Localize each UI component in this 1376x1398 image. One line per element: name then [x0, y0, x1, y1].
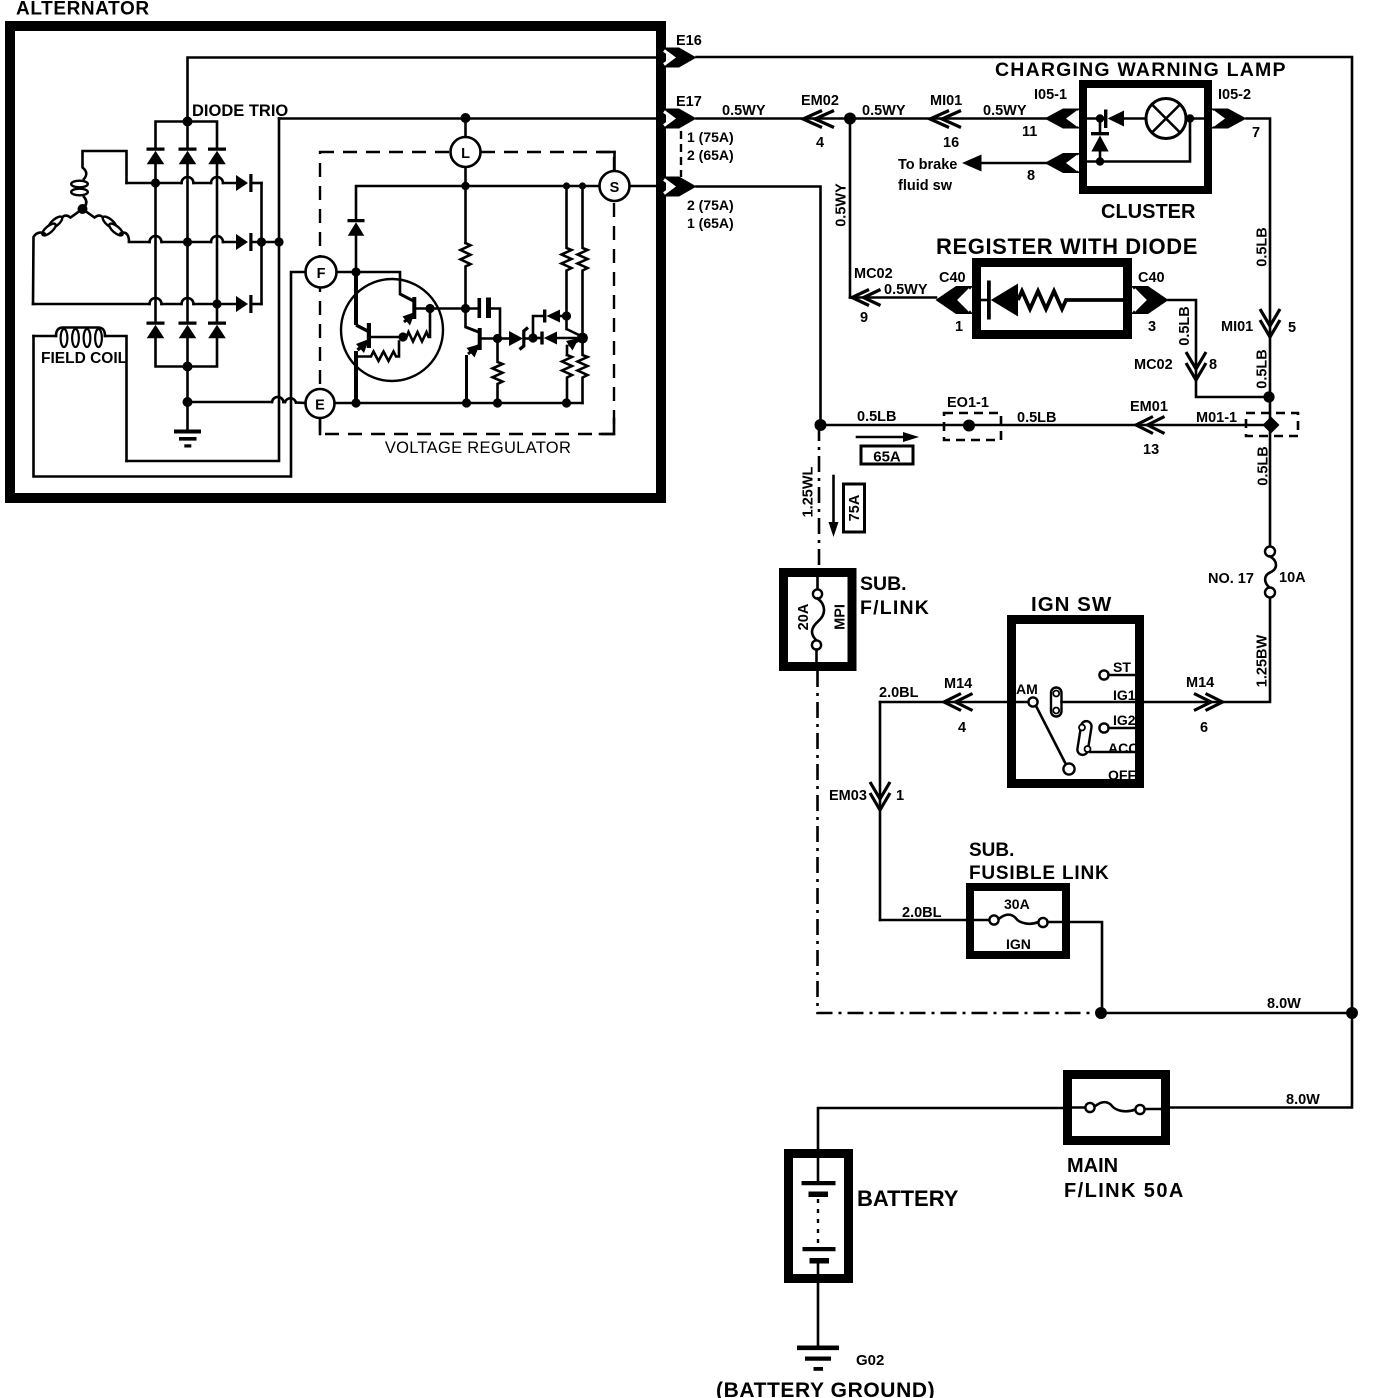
svg-text:CHARGING WARNING LAMP: CHARGING WARNING LAMP — [995, 59, 1287, 81]
svg-text:FUSIBLE LINK: FUSIBLE LINK — [969, 863, 1110, 884]
label 0.5WY a — [722, 103, 766, 119]
node bus left — [815, 419, 827, 431]
diode trio bus — [156, 122, 218, 148]
wire 30A fuse out — [1048, 922, 1102, 1013]
rectifier diode N3 — [208, 322, 226, 339]
svg-text:AM: AM — [1016, 681, 1038, 697]
label sub fusible link — [969, 840, 1110, 884]
node negative bus — [183, 362, 193, 372]
connector C40-1 — [936, 286, 974, 314]
connector C40-3 — [1131, 286, 1169, 314]
label battery ground — [716, 1379, 935, 1398]
svg-text:I05-1: I05-1 — [1034, 87, 1067, 103]
diode D7 (cluster) — [1104, 110, 1146, 129]
transistor Q3 — [466, 327, 498, 403]
terminal S — [600, 152, 657, 201]
svg-text:C40: C40 — [1138, 270, 1165, 286]
fuse NO.17 10A — [1265, 547, 1276, 598]
label 65A boxed — [861, 446, 913, 466]
svg-text:8.0W: 8.0W — [1267, 996, 1301, 1012]
label 20A MPI rotated — [796, 603, 849, 630]
diode D9 (register) — [981, 281, 1018, 320]
svg-text:IGN SW: IGN SW — [1031, 593, 1112, 616]
node phase3 — [212, 299, 221, 308]
svg-text:M14: M14 — [1186, 675, 1214, 691]
svg-text:9: 9 — [860, 310, 868, 326]
label 8.0W b — [1286, 1092, 1320, 1108]
label 0.5WY c — [983, 103, 1027, 119]
terminal L — [451, 118, 481, 167]
svg-text:1: 1 — [955, 319, 963, 335]
node phase2 — [183, 237, 192, 246]
wire rectifier right bus — [260, 183, 263, 304]
diode D8 (cluster vertical) — [1091, 119, 1109, 162]
svg-text:2 (75A): 2 (75A) — [687, 197, 734, 213]
wire rectifier negative bus — [156, 338, 218, 402]
svg-text:2 (65A): 2 (65A) — [687, 147, 734, 163]
svg-text:1 (75A): 1 (75A) — [687, 129, 734, 145]
wire lamp feed drop — [849, 119, 852, 298]
wire L column — [464, 167, 467, 243]
ign sw IG2 terminal — [1099, 712, 1139, 733]
svg-text:(BATTERY GROUND): (BATTERY GROUND) — [716, 1379, 935, 1398]
svg-text:0.5LB: 0.5LB — [1177, 306, 1193, 346]
arrow 65A flow — [857, 432, 919, 442]
label 0.5LB bus a — [857, 409, 897, 425]
label 0.5LB rotated (register drop) — [1177, 306, 1193, 346]
node 8.0W junction — [1095, 1007, 1107, 1019]
alternator box — [10, 26, 661, 498]
label charging warning lamp — [995, 59, 1287, 81]
node Q3 base — [493, 334, 502, 343]
svg-text:DIODE TRIO: DIODE TRIO — [192, 102, 288, 120]
wire phase2 — [129, 164, 236, 321]
node cluster diode junction — [1096, 114, 1104, 122]
wire register out — [1169, 300, 1270, 397]
svg-text:11: 11 — [1022, 124, 1037, 140]
svg-text:M01-1: M01-1 — [1196, 410, 1237, 426]
node E bus x566 — [562, 398, 571, 407]
label 8 — [1027, 168, 1035, 184]
svg-text:1.25WL: 1.25WL — [801, 466, 817, 517]
fuse 20A MPI — [812, 577, 824, 662]
ign sw ACC terminal — [1090, 740, 1140, 756]
svg-text:M14: M14 — [944, 676, 972, 692]
svg-text:2.0BL: 2.0BL — [879, 685, 919, 701]
wire phase3 — [33, 164, 236, 321]
svg-text:8.0W: 8.0W — [1286, 1092, 1320, 1108]
label battery — [857, 1186, 959, 1211]
svg-text:3: 3 — [1148, 319, 1156, 335]
battery cells — [802, 1158, 836, 1278]
wire to brake fluid sw — [981, 162, 1046, 165]
wire E16 internal — [188, 58, 659, 122]
connector EM02 chevron — [803, 111, 834, 128]
lamp (charging warning) — [1146, 99, 1208, 139]
svg-text:1: 1 — [896, 788, 904, 804]
voltage regulator dashed box — [320, 152, 615, 434]
svg-text:SUB.: SUB. — [969, 840, 1014, 861]
svg-text:0.5LB: 0.5LB — [1255, 227, 1271, 267]
svg-text:0.5LB: 0.5LB — [1255, 349, 1271, 389]
svg-text:IG2: IG2 — [1113, 712, 1136, 728]
label NO.17 10A — [1208, 570, 1306, 587]
label to brake fluid sw — [898, 157, 957, 194]
svg-text:To brake: To brake — [898, 157, 957, 173]
register box — [977, 263, 1128, 335]
svg-text:FIELD COIL: FIELD COIL — [41, 350, 127, 367]
svg-text:S: S — [610, 180, 620, 196]
node E bus x497 — [493, 398, 502, 407]
wire E17 internal — [279, 117, 658, 120]
stator winding B (lower-left) — [33, 209, 83, 304]
wire field coil to F — [34, 272, 307, 477]
connector M14-4 chevron — [944, 694, 973, 711]
svg-text:E16: E16 — [676, 33, 702, 49]
wire E16 to right edge — [697, 57, 1353, 1013]
svg-text:8: 8 — [1209, 357, 1217, 373]
svg-text:0.5LB: 0.5LB — [1256, 446, 1272, 486]
svg-text:fluid sw: fluid sw — [898, 178, 953, 194]
battery box — [789, 1154, 849, 1279]
svg-text:0.5WY: 0.5WY — [834, 183, 850, 227]
diode trio D1 — [147, 148, 165, 165]
arrow 75A flow — [829, 476, 839, 537]
wire cluster lamp row — [1081, 117, 1104, 120]
node divider1 mid — [562, 311, 571, 320]
label 2.0BL a — [879, 685, 919, 701]
svg-text:I05-2: I05-2 — [1218, 87, 1251, 103]
svg-text:0.5WY: 0.5WY — [722, 103, 766, 119]
node cluster lower — [1096, 157, 1104, 165]
zener diode Z1 — [498, 328, 534, 350]
label M01-1 — [1196, 410, 1237, 426]
wire into 30A fuse — [880, 919, 990, 922]
label 0.5WY rotated (S drop) — [834, 183, 850, 227]
wire main f/link to 8.0W — [1170, 1010, 1352, 1108]
transistor Q1 — [356, 272, 403, 403]
wire phase1 — [127, 164, 237, 321]
svg-text:65A: 65A — [873, 449, 901, 466]
label 75A boxed rotated — [844, 484, 865, 532]
wire EM03 drop — [879, 702, 882, 920]
connector S (alternator) — [662, 177, 697, 197]
svg-text:0.5WY: 0.5WY — [884, 282, 928, 298]
svg-text:VOLTAGE REGULATOR: VOLTAGE REGULATOR — [385, 439, 571, 457]
node E17/lamp junction — [844, 113, 856, 125]
svg-text:0.5WY: 0.5WY — [862, 103, 906, 119]
wire B+ column to field coil — [127, 119, 280, 462]
svg-text:1.25BW: 1.25BW — [1255, 635, 1271, 688]
label M14 4 — [944, 676, 972, 736]
label I05-2 — [1218, 87, 1260, 141]
svg-text:L: L — [461, 146, 470, 162]
resistor R7 (bottom) — [562, 355, 572, 403]
label MC02 9 — [854, 266, 928, 326]
node Q4 emitter junction — [577, 333, 588, 344]
ign sw IG1 terminal — [1062, 687, 1140, 703]
svg-text:MI01: MI01 — [930, 93, 962, 109]
diode trio D3 — [208, 148, 226, 165]
node E wire tap — [183, 397, 193, 407]
node lamp right — [1186, 114, 1194, 122]
svg-text:6: 6 — [1200, 720, 1208, 736]
svg-text:EO1-1: EO1-1 — [947, 395, 989, 411]
svg-text:BATTERY: BATTERY — [857, 1186, 959, 1211]
label G02 — [856, 1352, 884, 1369]
ign sw contact bar 2 — [1077, 720, 1093, 755]
label sub f/link — [860, 573, 930, 619]
wire E lead with hops — [188, 397, 307, 403]
ground G02 (battery) — [797, 1346, 839, 1371]
label EM02 — [801, 93, 839, 151]
label 0.5LB rotated r3 — [1256, 446, 1272, 486]
wire S sense line — [356, 186, 600, 219]
svg-text:CLUSTER: CLUSTER — [1101, 201, 1196, 223]
stator winding C (lower-right) — [83, 209, 130, 242]
main f/link box — [1068, 1075, 1166, 1141]
resistor R4 (L column) — [461, 243, 471, 327]
connector I05-1 — [1045, 109, 1081, 129]
ign sw AM contact — [1016, 681, 1038, 707]
label 2.0BL b — [902, 905, 942, 921]
wire I05-2 to ign sw — [1144, 119, 1270, 703]
svg-text:E17: E17 — [676, 94, 702, 110]
wire S to bus corner — [697, 187, 821, 426]
resistor R8 (bottom) — [578, 338, 588, 403]
label S pins — [687, 197, 734, 231]
svg-text:ALTERNATOR: ALTERNATOR — [16, 0, 150, 20]
svg-text:REGISTER WITH DIODE: REGISTER WITH DIODE — [936, 234, 1198, 259]
wire MC02 to register — [850, 296, 936, 299]
rectifier diode N1 — [147, 322, 165, 339]
fuse 30A IGN — [989, 915, 1047, 927]
label register with diode — [936, 234, 1198, 259]
svg-text:8: 8 — [1027, 168, 1035, 184]
ign sw contact bar 1 — [1051, 688, 1062, 717]
capacitor C1 — [478, 298, 501, 338]
wire 1.25WL dash-dot — [818, 425, 821, 568]
label E17 — [676, 94, 702, 110]
arrow to brake fluid sw — [962, 155, 982, 172]
label C40-3 — [1138, 270, 1165, 335]
svg-text:F/LINK: F/LINK — [860, 597, 930, 619]
label 0.5WY b — [862, 103, 906, 119]
svg-text:NO. 17: NO. 17 — [1208, 571, 1254, 587]
label 0.5LB rotated r2 — [1255, 349, 1271, 389]
connector MI01 chevron — [930, 111, 961, 128]
wire 8.0W to right — [1101, 1012, 1352, 1015]
label OFF — [1108, 767, 1136, 783]
svg-text:20A: 20A — [796, 603, 812, 630]
svg-text:ST: ST — [1113, 659, 1131, 675]
node Q1 base — [398, 332, 407, 341]
label main f/link 50a — [1064, 1155, 1185, 1202]
connector E17 — [662, 109, 697, 129]
svg-text:10A: 10A — [1279, 570, 1306, 586]
ign sw lever — [1036, 706, 1075, 775]
svg-text:EM01: EM01 — [1130, 399, 1168, 415]
diode D4 (S line) — [348, 219, 365, 272]
svg-text:MPI: MPI — [833, 604, 849, 630]
connector EM01 chevron — [1136, 417, 1165, 434]
stator neutral node — [78, 204, 88, 214]
wire AM feed — [880, 701, 1028, 704]
rectifier diode N2 — [179, 322, 197, 339]
wire dash-dot to 8.0W — [818, 671, 1099, 1013]
node E bus x466 — [462, 398, 471, 407]
svg-text:OFF: OFF — [1108, 767, 1136, 783]
svg-text:F: F — [317, 266, 326, 282]
ground (alternator) — [174, 402, 201, 448]
label 30A IGN — [1004, 896, 1031, 952]
svg-text:MC02: MC02 — [854, 266, 893, 282]
label cluster — [1101, 201, 1196, 223]
stator winding A (top) — [71, 151, 126, 209]
label E17 pins — [681, 129, 734, 177]
resistor R9 (register) — [1018, 291, 1123, 309]
node register drop junction — [1263, 391, 1274, 402]
node divider2 top — [579, 182, 586, 189]
wire E bus — [335, 402, 583, 405]
svg-text:ACC: ACC — [1108, 740, 1138, 756]
sub f/link box — [784, 573, 853, 667]
svg-text:IGN: IGN — [1006, 936, 1031, 952]
label MC02 8 — [1134, 357, 1217, 373]
transistor Q4 — [566, 316, 581, 355]
label 8.0W a — [1267, 996, 1301, 1012]
node 8.0W right — [1346, 1007, 1358, 1019]
label E16 — [676, 33, 702, 49]
diode trio D2 — [179, 148, 197, 165]
svg-text:2.0BL: 2.0BL — [902, 905, 942, 921]
node L-S crossing — [461, 182, 469, 190]
svg-text:MAIN: MAIN — [1067, 1155, 1118, 1177]
svg-text:MI01: MI01 — [1221, 319, 1253, 335]
ign sw ST terminal — [1099, 659, 1139, 680]
node zener junction — [528, 333, 537, 342]
svg-text:IG1: IG1 — [1113, 687, 1136, 703]
svg-text:1 (65A): 1 (65A) — [687, 215, 734, 231]
connector EM03 chevron — [870, 782, 890, 810]
label 0.5LB rotated r1 — [1255, 227, 1271, 267]
resistor R6 (divider) — [578, 186, 588, 338]
svg-text:C40: C40 — [939, 270, 966, 286]
sub fusible link box — [970, 887, 1066, 955]
node L column tap — [461, 304, 470, 313]
label ign sw — [1031, 593, 1112, 616]
wire E17 to cluster — [697, 117, 1047, 120]
svg-text:7: 7 — [1252, 125, 1260, 141]
node Q2 base — [425, 304, 477, 313]
node F junction — [337, 267, 361, 276]
connector MC02-8 chevron — [1186, 352, 1206, 380]
label MI01 5 — [1221, 319, 1296, 336]
svg-text:4: 4 — [816, 135, 824, 151]
label 0.5LB bus b — [1017, 410, 1057, 426]
svg-text:EM02: EM02 — [801, 93, 839, 109]
connector MC02 chevron — [852, 290, 881, 306]
node right bus phase2 — [257, 237, 266, 246]
svg-text:16: 16 — [943, 135, 959, 151]
svg-text:E: E — [315, 398, 325, 414]
label I05-1 — [1022, 87, 1067, 140]
ign sw box — [1012, 620, 1140, 784]
label MI01 — [930, 93, 962, 151]
connector 8 (cluster) — [1045, 153, 1081, 173]
svg-text:30A: 30A — [1004, 896, 1030, 912]
svg-text:G02: G02 — [856, 1352, 884, 1369]
connector I05-2 — [1211, 109, 1247, 129]
connector M14-6 chevron — [1194, 694, 1223, 711]
wire 0.5LB bus — [821, 424, 1270, 427]
connector MI01-5 chevron — [1260, 309, 1280, 337]
svg-text:75A: 75A — [847, 494, 863, 521]
resistor R2 (Q2 b-e) — [403, 313, 430, 342]
resistor R1 (Q1 b-e) — [356, 342, 399, 362]
svg-text:13: 13 — [1143, 442, 1159, 458]
transistor circle U1 — [341, 279, 443, 381]
resistor R5 (divider) — [562, 186, 572, 316]
svg-text:EM03: EM03 — [829, 788, 867, 804]
terminal E — [306, 389, 335, 434]
resistor R3 — [493, 339, 503, 404]
rectifier diode P3 (right) — [236, 295, 262, 313]
node L tap — [461, 113, 471, 123]
svg-text:0.5WY: 0.5WY — [983, 103, 1027, 119]
label EM01 13 — [1130, 399, 1168, 458]
connector EO1-1 — [944, 413, 1001, 440]
wire cluster lower row — [1081, 119, 1190, 162]
node diode trio bus — [183, 117, 193, 127]
terminal F — [306, 257, 337, 288]
rectifier diode P2 (right) — [236, 233, 279, 251]
node B+ phase2 — [274, 237, 283, 246]
diode trio label — [192, 102, 288, 120]
label 1.25WL rotated — [801, 466, 817, 517]
svg-text:F/LINK 50A: F/LINK 50A — [1064, 1180, 1185, 1202]
label M14 6 — [1186, 675, 1214, 736]
rectifier diode P1 (right) — [236, 174, 262, 192]
transistor Q2 — [356, 272, 430, 326]
field coil — [34, 328, 127, 462]
fuse main 50A — [1072, 1102, 1161, 1114]
svg-text:SUB.: SUB. — [860, 573, 907, 595]
label 1.25BW rotated — [1255, 635, 1271, 688]
node E bus x356 — [351, 398, 360, 407]
alternator label — [16, 0, 150, 20]
label EM03 1 — [829, 788, 904, 804]
svg-text:0.5LB: 0.5LB — [1017, 410, 1057, 426]
connector M01-1 — [1246, 413, 1298, 436]
svg-text:4: 4 — [958, 720, 966, 736]
wire battery to ground — [817, 1283, 820, 1346]
label EO1-1 — [947, 395, 989, 411]
cluster box — [1083, 84, 1208, 190]
node divider1 top — [563, 182, 570, 189]
svg-text:0.5LB: 0.5LB — [857, 409, 897, 425]
diode D6 (lower) — [533, 332, 583, 345]
svg-text:MC02: MC02 — [1134, 357, 1173, 373]
svg-text:5: 5 — [1288, 320, 1296, 336]
connector E16 — [662, 48, 697, 68]
field coil label — [41, 350, 127, 367]
node phase1 — [151, 178, 160, 187]
label C40-1 — [939, 270, 966, 335]
diode D5 (upper) — [533, 310, 567, 339]
wire main f/link to battery — [818, 1108, 1063, 1149]
voltage regulator label — [385, 439, 571, 457]
